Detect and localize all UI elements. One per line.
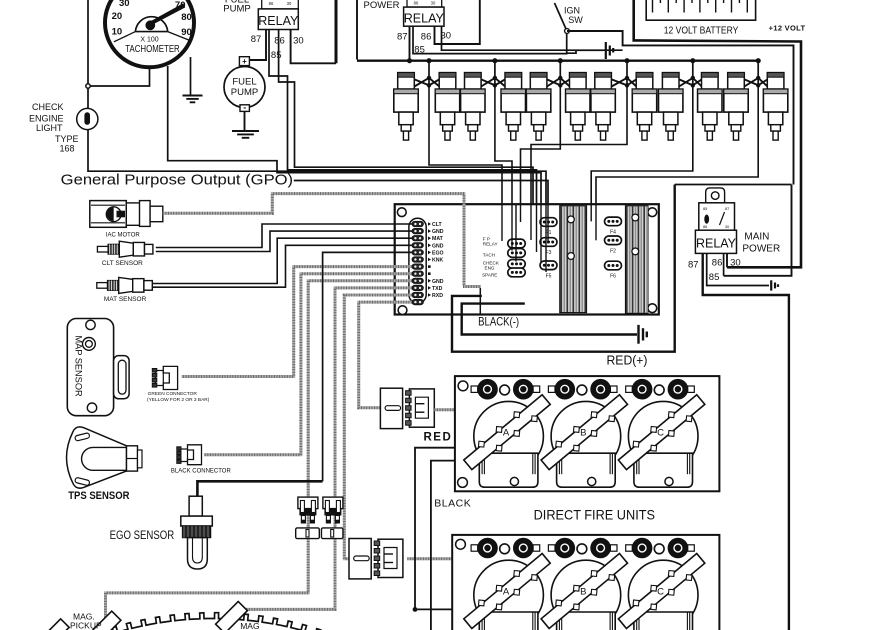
- svg-text:70: 70: [175, 0, 186, 11]
- svg-text:BLACK(-): BLACK(-): [478, 314, 519, 328]
- svg-text:C: C: [657, 428, 664, 439]
- svg-text:RELAY: RELAY: [404, 12, 445, 26]
- battery BT1 12V: [646, 0, 755, 20]
- svg-text:RELAY: RELAY: [483, 242, 498, 247]
- wire K2 pin30: [442, 26, 623, 50]
- wire K3 86 to ground: [707, 253, 769, 285]
- svg-text:(YELLOW FOR 2 OR 3 BAR): (YELLOW FOR 2 OR 3 BAR): [147, 397, 210, 403]
- svg-text:TXD: TXD: [432, 286, 443, 292]
- wire injector pair 2 to ECU: [495, 88, 512, 204]
- svg-text:30: 30: [725, 225, 729, 229]
- svg-text:POWER: POWER: [364, 0, 400, 11]
- DFU2 connector: [349, 539, 403, 579]
- mag pickup 1: [89, 611, 121, 630]
- relay K2 power: [404, 7, 445, 26]
- screw DFU1 top: [458, 381, 468, 391]
- wire fuel pump to ground: [244, 111, 246, 131]
- wire K1 pin87 to fuel pump +: [249, 30, 266, 61]
- inline connector pair A: [298, 497, 318, 523]
- wire injector pair 5 to ECU: [591, 88, 693, 204]
- relay K3 main power pictorial: [699, 188, 735, 231]
- wire braid red connector to DFU1: [434, 408, 455, 411]
- junction injector pair 3: [558, 58, 563, 63]
- svg-text:85: 85: [703, 207, 707, 211]
- svg-text:KNK: KNK: [432, 258, 443, 264]
- wire braid mag pickup 1 to ECU: [106, 281, 413, 621]
- battery terminal symbol RED+: [639, 325, 647, 344]
- junction K2-87 bus: [407, 58, 412, 63]
- wire braid DFU1 to ECU: [359, 302, 412, 408]
- ECU internal wires: [502, 204, 596, 272]
- svg-text:MAT: MAT: [432, 236, 444, 242]
- wire K3 87 output: [703, 253, 789, 630]
- wire K2 pin86 to ignition: [435, 0, 480, 44]
- inline connector sockets: [296, 528, 343, 539]
- svg-text:MAG: MAG: [240, 621, 259, 630]
- svg-text:BLACK CONNECTOR: BLACK CONNECTOR: [171, 469, 232, 475]
- svg-text:30: 30: [119, 0, 130, 9]
- wire CLT ground: [156, 231, 412, 251]
- svg-text:MAT SENSOR: MAT SENSOR: [104, 296, 147, 303]
- svg-text:TACH: TACH: [483, 253, 495, 258]
- svg-text:85: 85: [271, 50, 282, 61]
- wire DFU1 black 1: [415, 448, 455, 610]
- svg-text:30: 30: [730, 257, 741, 268]
- wire main relay 85 feed: [724, 185, 792, 276]
- TPS sensor: [67, 427, 143, 488]
- trigger wheel gear: [98, 613, 322, 630]
- svg-text:B: B: [580, 586, 586, 597]
- svg-text:GND: GND: [432, 243, 444, 249]
- svg-text:RELAY: RELAY: [258, 14, 299, 28]
- junction injector pair 2: [492, 58, 497, 63]
- ignition coil C row1: [615, 380, 707, 488]
- injector INJ4: [501, 73, 525, 141]
- wire braid black connector to ECU: [204, 274, 412, 455]
- ECU IO pin headers: [508, 239, 526, 277]
- wire feed from top: [87, 0, 89, 86]
- green connector: [152, 366, 177, 389]
- ignition coil C row2: [615, 538, 707, 630]
- svg-text:A: A: [503, 428, 510, 439]
- injector INJ1: [394, 73, 418, 141]
- switch IGN SW: [555, 3, 584, 33]
- injector INJ9: [659, 73, 683, 141]
- svg-text:CLT SENSOR: CLT SENSOR: [102, 260, 143, 267]
- check engine light text: [29, 102, 79, 154]
- svg-text:86: 86: [269, 1, 274, 6]
- wire injector pair 4 to ECU: [531, 88, 627, 204]
- wire injector pair 6 to ECU: [596, 88, 758, 204]
- svg-text:TACHOMETER: TACHOMETER: [125, 44, 180, 55]
- injector INJ7: [591, 73, 615, 141]
- svg-text:-: -: [243, 103, 246, 113]
- svg-text:F4: F4: [610, 229, 616, 235]
- injector INJ3: [461, 73, 485, 141]
- svg-text:87: 87: [251, 34, 262, 45]
- wire braid DFU2 to ECU: [344, 295, 412, 559]
- svg-text:GREEN CONNECTOR: GREEN CONNECTOR: [148, 391, 198, 397]
- pin labels relay K2: [397, 31, 451, 56]
- label MAG PICKUP: [70, 612, 102, 630]
- relay K1 fuel pump: [258, 9, 299, 30]
- wire injector pair 1 to ECU: [429, 88, 502, 204]
- svg-text:MAIN: MAIN: [744, 232, 769, 243]
- node tach junction: [86, 84, 90, 88]
- svg-text:ENG: ENG: [485, 265, 495, 270]
- wire +12V feed: [335, 0, 338, 63]
- battery negative chassis symbol: [606, 42, 613, 59]
- black connector: [177, 445, 202, 465]
- wire tach left lead: [88, 67, 150, 86]
- svg-text:SW: SW: [568, 15, 583, 25]
- ECU function labels: [482, 237, 500, 278]
- svg-text:87: 87: [725, 207, 729, 211]
- injector INJ12: [763, 73, 787, 141]
- ECU pin labels: [428, 222, 444, 299]
- svg-text:CLT: CLT: [432, 222, 443, 228]
- wire DFU1 black 2: [431, 461, 455, 630]
- svg-text:IGN: IGN: [564, 6, 580, 16]
- junction DFU wire: [413, 607, 418, 612]
- wire K1 pin30 to +12V: [291, 30, 336, 64]
- lamp check engine light: [77, 108, 98, 129]
- fuel pump motor M1: [224, 57, 265, 113]
- svg-text:BLACK: BLACK: [434, 497, 471, 509]
- wire injector pair 3 to ECU: [521, 88, 561, 204]
- ECU injector driver box U1: [395, 204, 659, 314]
- pin labels relay K1: [251, 34, 304, 61]
- wire braid MAP to ECU: [182, 267, 412, 377]
- wire check engine to ECU: [87, 88, 89, 109]
- svg-text:ENGINE: ENGINE: [29, 114, 64, 124]
- wire injector pair 6 crossover: [744, 61, 769, 88]
- svg-text:A: A: [503, 586, 510, 597]
- wire ECU BLACK minus: [452, 185, 675, 352]
- wire injector bus feed: [356, 0, 358, 60]
- ECU injector output headers bank1: [540, 218, 557, 280]
- wire injector supply bus: [357, 60, 758, 62]
- wire DFU junction to DFU2: [415, 608, 452, 610]
- svg-text:86: 86: [414, 1, 419, 6]
- svg-text:87: 87: [397, 31, 408, 42]
- svg-text:GND: GND: [432, 229, 444, 235]
- mag pickup 2: [216, 601, 248, 630]
- ECU injector output headers bank2: [605, 217, 622, 279]
- svg-text:MAP SENSOR: MAP SENSOR: [74, 336, 84, 397]
- svg-text:80: 80: [181, 12, 192, 23]
- wire K2 pin85: [413, 26, 567, 53]
- label green connector: [147, 391, 210, 403]
- svg-text:SPARE: SPARE: [482, 272, 497, 277]
- wire K3 85 vertical: [723, 253, 725, 275]
- DFU box 1: [455, 376, 720, 491]
- wire ign sw lower terminal: [566, 33, 568, 53]
- injector INJ10: [698, 73, 722, 141]
- ignition coil B row1: [538, 380, 630, 488]
- IAC motor M2: [90, 201, 163, 228]
- relay K2 power pictorial: [407, 0, 442, 7]
- junction injector pair 4: [624, 58, 629, 63]
- wire injector pair 3 crossover: [546, 61, 570, 88]
- junction injector pair 5: [690, 58, 695, 63]
- svg-text:General Purpose Output (GPO): General Purpose Output (GPO): [61, 172, 293, 188]
- tachometer gauge: [105, 0, 194, 67]
- ECU heatsink 1: [560, 206, 587, 313]
- svg-text:30: 30: [293, 35, 304, 46]
- relay K1 fuel pump pictorial: [262, 0, 299, 9]
- svg-text:FUEL: FUEL: [225, 0, 249, 6]
- DFU1 red connector: [380, 388, 434, 428]
- wire tach ground lead: [190, 57, 192, 95]
- ignition coil A row2: [461, 538, 553, 630]
- ECU heatsink 2: [626, 206, 648, 313]
- ground K3: [771, 280, 778, 290]
- wire battery positive lead: [634, 0, 801, 267]
- EGO sensor: [181, 496, 213, 569]
- wire EGO to ECU: [197, 481, 322, 496]
- svg-text:87: 87: [688, 259, 699, 270]
- wire IAC braided to ECU: [163, 194, 464, 286]
- svg-text:PUMP: PUMP: [231, 87, 258, 98]
- wire MAT ground: [152, 245, 412, 287]
- svg-text:86: 86: [712, 257, 723, 268]
- svg-text:LIGHT: LIGHT: [36, 123, 63, 133]
- wire injector pair 2 crossover: [480, 61, 506, 88]
- wire injector pair 1 crossover: [414, 61, 441, 88]
- screw DFU2 top: [456, 539, 466, 549]
- injector INJ6: [566, 73, 590, 141]
- ignition coil B row2: [538, 538, 630, 630]
- svg-text:168: 168: [59, 144, 74, 154]
- wire K3 30 vertical: [726, 253, 728, 267]
- svg-text:TPS SENSOR: TPS SENSOR: [68, 490, 129, 502]
- svg-text:RED(+): RED(+): [607, 354, 648, 368]
- wire K1 pin86 to ECU: [279, 30, 533, 205]
- wire K1 pin85 to ECU: [269, 30, 537, 205]
- svg-text:EGO SENSOR: EGO SENSOR: [110, 530, 175, 542]
- injector INJ8: [632, 73, 656, 141]
- svg-text:GND: GND: [432, 279, 444, 285]
- svg-text:RELAY: RELAY: [696, 237, 737, 251]
- svg-text:F2: F2: [610, 248, 616, 254]
- wire braid connector to DFU2: [407, 557, 452, 560]
- ground tachometer: [183, 95, 203, 97]
- svg-text:CHECK: CHECK: [32, 102, 64, 112]
- relay K3 main power: [695, 230, 736, 253]
- svg-text:B: B: [580, 428, 586, 439]
- svg-text:RXD: RXD: [432, 293, 443, 299]
- wire ECU RED plus: [462, 304, 637, 335]
- wire braid ecu internal: [479, 288, 481, 314]
- injector INJ2: [435, 73, 459, 141]
- wire K2 pin87 to injector bus: [409, 26, 411, 61]
- svg-text:20: 20: [112, 11, 123, 22]
- junction injector pair 1: [426, 58, 431, 63]
- svg-text:85: 85: [709, 272, 720, 283]
- screw DFU1 bottom: [458, 478, 468, 488]
- CLT sensor: [97, 241, 152, 267]
- injector INJ5: [526, 73, 550, 141]
- wire tach signal down: [168, 66, 541, 204]
- svg-text:+: +: [242, 57, 247, 66]
- wire injector pair 5 crossover: [678, 61, 702, 88]
- svg-text:10: 10: [112, 26, 123, 37]
- svg-text:PICKUP: PICKUP: [70, 621, 102, 630]
- ground fuel pump: [232, 130, 259, 132]
- wire CLT signal: [156, 224, 412, 248]
- braid end hatch: [463, 285, 481, 288]
- svg-text:+12 VOLT: +12 VOLT: [769, 24, 806, 33]
- svg-text:30: 30: [431, 1, 436, 6]
- ECU left connector J1: [409, 218, 426, 304]
- svg-text:86: 86: [274, 35, 285, 46]
- MAT sensor: [97, 277, 152, 303]
- wire MAT signal: [152, 238, 412, 283]
- svg-text:FUEL: FUEL: [232, 77, 256, 88]
- svg-text:X 100: X 100: [140, 36, 158, 43]
- svg-text:F6: F6: [610, 274, 616, 280]
- mag pickup 1b: [41, 619, 69, 630]
- svg-text:IAC MOTOR: IAC MOTOR: [106, 233, 141, 239]
- svg-text:90: 90: [181, 27, 192, 38]
- svg-text:EGO: EGO: [432, 250, 444, 256]
- svg-text:C: C: [657, 586, 664, 597]
- svg-text:TYPE: TYPE: [55, 134, 79, 144]
- injector INJ11: [724, 73, 748, 141]
- wire braid mag pickup 2 to ECU: [241, 288, 412, 610]
- svg-text:86: 86: [703, 225, 707, 229]
- wire GPO: [294, 181, 548, 205]
- ignition coil A row1: [461, 380, 553, 488]
- wire main power feed to ECU red: [675, 184, 792, 186]
- svg-text:DIRECT FIRE UNITS: DIRECT FIRE UNITS: [534, 506, 655, 522]
- svg-text:30: 30: [287, 1, 292, 6]
- svg-text:RED: RED: [424, 431, 453, 443]
- labels K3: [688, 232, 780, 284]
- DFU box 2: [452, 535, 719, 630]
- inline connector pair B: [323, 497, 343, 523]
- MAP sensor: [67, 319, 129, 416]
- svg-text:F5: F5: [546, 273, 552, 279]
- svg-text:POWER: POWER: [742, 243, 780, 254]
- wire ignition switched +12: [567, 31, 794, 185]
- wire injector pair 4 crossover: [611, 61, 637, 88]
- svg-text:86: 86: [421, 31, 432, 42]
- junction injector pair 6: [756, 58, 761, 63]
- svg-text:12 VOLT BATTERY: 12 VOLT BATTERY: [664, 26, 739, 37]
